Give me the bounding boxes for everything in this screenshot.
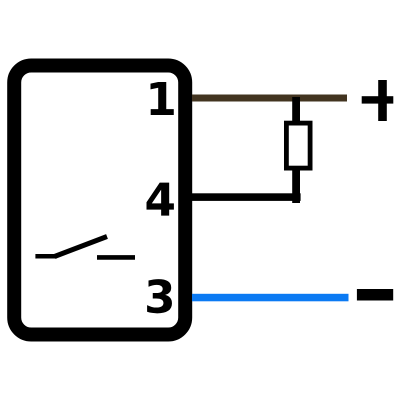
switch contact output lead xyxy=(97,255,135,260)
+ terminal xyxy=(362,96,394,103)
black wire pin 4 to resistor xyxy=(190,193,301,201)
- terminal xyxy=(357,289,393,301)
pin 3 label xyxy=(147,279,172,313)
switch body S1 xyxy=(14,66,185,335)
pin 4 label xyxy=(147,183,174,216)
switch contact fixed lead xyxy=(35,254,57,259)
wire resistor bottom stub xyxy=(292,168,300,203)
brown wire pin 1 to + xyxy=(192,95,347,102)
pin 1 label xyxy=(150,82,173,115)
resistor R1 xyxy=(286,123,310,168)
wire resistor top stub xyxy=(292,97,300,123)
switch contact lever xyxy=(55,237,108,257)
blue wire pin 3 to - xyxy=(192,294,349,302)
